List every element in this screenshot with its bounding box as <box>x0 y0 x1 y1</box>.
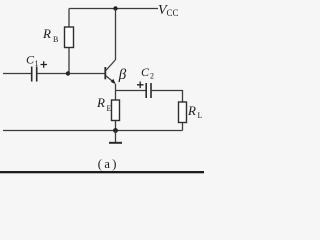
transistor Q1 collector stroke <box>106 60 116 71</box>
svg-text:2: 2 <box>150 72 154 81</box>
wire input left <box>3 73 31 75</box>
wire collector vertical <box>115 9 117 61</box>
capacitor C1 <box>32 67 37 82</box>
wire base <box>68 73 105 75</box>
svg-text:R: R <box>187 103 196 118</box>
wire C1 to base node <box>37 73 68 75</box>
resistor RL <box>179 102 187 123</box>
svg-text:R: R <box>42 26 51 41</box>
svg-text:E: E <box>107 104 112 113</box>
wire C2 to RL corner <box>151 91 183 103</box>
wire RB top lead <box>68 9 70 28</box>
ground <box>109 131 122 143</box>
label RL <box>187 103 203 120</box>
label RB <box>42 26 58 44</box>
label C2 <box>141 65 154 81</box>
svg-text:β: β <box>118 67 127 83</box>
net VCC label <box>158 3 179 18</box>
resistor RE <box>112 100 120 121</box>
label C1 plus polarity <box>41 61 48 68</box>
wire top rail <box>69 8 158 10</box>
label beta <box>118 67 127 83</box>
wire RB bottom lead <box>68 48 70 74</box>
label RE <box>96 95 112 113</box>
node ground junction <box>113 128 118 133</box>
svg-text:1: 1 <box>35 59 39 68</box>
node base junction <box>66 71 70 75</box>
svg-text:B: B <box>53 35 58 44</box>
svg-text:R: R <box>96 95 105 110</box>
svg-text:(a): (a) <box>98 157 119 171</box>
wire RE bottom lead <box>115 121 117 131</box>
transistor Q1 base bar <box>104 67 106 79</box>
svg-text:C: C <box>141 65 150 79</box>
transistor Q1 emitter stroke with arrow <box>106 76 116 84</box>
resistor RB <box>65 27 74 48</box>
wire emitter node to C2 <box>116 90 147 92</box>
wire emitter node to RE <box>115 91 117 101</box>
caption (a) <box>98 157 119 171</box>
label C1 <box>26 53 39 69</box>
wire RL bottom lead <box>182 123 184 131</box>
rule bottom band <box>0 171 204 173</box>
capacitor C2 <box>146 83 151 98</box>
node collector-rail junction <box>113 6 117 10</box>
svg-text:L: L <box>198 111 203 120</box>
wire bottom rail <box>3 130 183 132</box>
wire emitter vertical <box>115 84 117 91</box>
svg-text:CC: CC <box>167 8 179 18</box>
label C2 plus polarity <box>137 82 144 89</box>
